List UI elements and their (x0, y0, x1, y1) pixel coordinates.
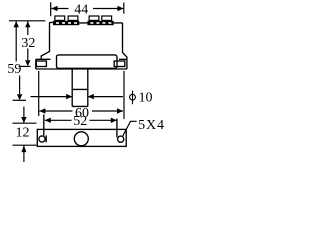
svg-text:44: 44 (74, 3, 88, 18)
svg-text:5X4: 5X4 (138, 118, 165, 133)
svg-text:10: 10 (139, 91, 153, 106)
svg-text:32: 32 (21, 36, 35, 51)
svg-text:52: 52 (73, 114, 87, 129)
svg-text:12: 12 (16, 126, 30, 141)
svg-text:59: 59 (7, 62, 21, 77)
